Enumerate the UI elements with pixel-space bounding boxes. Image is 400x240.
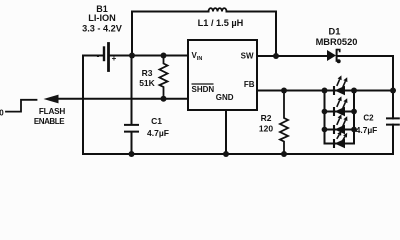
node ladder rung3 right <box>351 127 357 133</box>
resistor R3 <box>160 56 168 99</box>
LED ladder columns <box>325 91 355 144</box>
LED D3 <box>334 96 347 116</box>
wire FB line <box>257 90 393 92</box>
svg-text:SHDN: SHDN <box>192 85 215 94</box>
svg-text:C1: C1 <box>151 116 162 126</box>
svg-text:120: 120 <box>259 124 273 134</box>
svg-text:R3: R3 <box>142 68 153 78</box>
node R3 bottom <box>161 96 167 102</box>
svg-text:4.7µF: 4.7µF <box>147 128 169 138</box>
node FB-R2 <box>281 88 287 94</box>
wire top inductor rail <box>132 12 276 57</box>
wire output right rail <box>392 56 394 154</box>
svg-text:+: + <box>112 54 117 63</box>
LED ladder rungs <box>325 112 355 144</box>
wire main Vin rail <box>83 55 188 57</box>
LED D5 <box>334 131 347 148</box>
node R3 top <box>161 53 167 59</box>
svg-text:D1: D1 <box>329 27 341 37</box>
IC U1 boost converter box <box>188 40 257 110</box>
svg-text:4.7µF: 4.7µF <box>356 125 378 135</box>
resistor R2 <box>280 91 288 155</box>
capacitor C2 <box>387 118 399 124</box>
svg-text:3.3 - 4.2V: 3.3 - 4.2V <box>82 24 123 34</box>
node ladder rung3 left <box>322 127 328 133</box>
svg-text:FLASH: FLASH <box>39 107 66 116</box>
battery B1 <box>103 48 105 61</box>
diode D1 MBR0520 <box>327 49 341 64</box>
LED D2 <box>334 75 347 95</box>
flash enable step-pulse symbol <box>6 100 37 112</box>
wire shutdown line with flash-enable arrow <box>57 98 188 100</box>
LED D4 <box>334 114 347 134</box>
node R2 ground <box>281 151 287 157</box>
svg-text:MBR0520: MBR0520 <box>316 37 358 47</box>
node battery-L1 junction <box>129 53 135 59</box>
svg-text:C2: C2 <box>363 114 374 123</box>
wire bottom ground rail <box>83 153 393 155</box>
wire GND pin drop <box>225 110 227 154</box>
node FB-output rail <box>390 88 396 94</box>
svg-text:0: 0 <box>0 109 4 118</box>
node ladder top-left <box>322 88 328 94</box>
svg-text:FB: FB <box>244 80 255 89</box>
svg-text:R2: R2 <box>261 113 272 123</box>
svg-text:-: - <box>97 52 100 61</box>
svg-text:LI-ION: LI-ION <box>88 13 116 23</box>
node ladder rung2 left <box>322 109 328 115</box>
capacitor C1 <box>125 56 138 155</box>
node SW-L1 junction <box>273 53 279 59</box>
wire SW output <box>257 55 393 57</box>
node ladder top-right <box>351 88 357 94</box>
svg-text:SW: SW <box>241 52 254 61</box>
inductor L1 <box>209 8 227 11</box>
svg-text:51K: 51K <box>139 78 155 88</box>
svg-text:ENABLE: ENABLE <box>34 117 65 126</box>
node C1 ground <box>129 151 135 157</box>
svg-text:L1 / 1.5 µH: L1 / 1.5 µH <box>198 18 244 28</box>
svg-text:GND: GND <box>216 93 234 102</box>
node GND pin ground <box>223 151 229 157</box>
wire left ground rail <box>82 56 84 155</box>
node ladder rung2 right <box>351 109 357 115</box>
flash enable arrowhead <box>44 95 59 104</box>
